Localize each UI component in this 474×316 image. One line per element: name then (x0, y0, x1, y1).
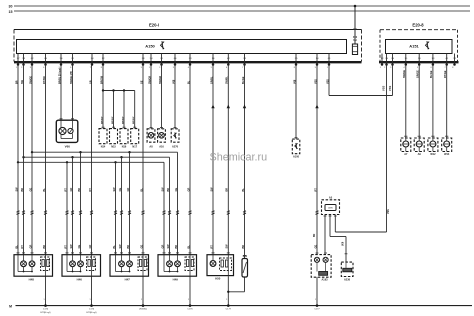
svg-text:GE: GE (119, 188, 122, 192)
svg-text:E20-8: E20-8 (412, 23, 424, 28)
svg-text:V08: V08 (172, 79, 175, 84)
svg-text:BR: BR (78, 188, 81, 192)
svg-text:SW: SW (210, 187, 213, 192)
svg-text:BR: BR (226, 188, 229, 192)
svg-text:SW: SW (119, 244, 122, 249)
svg-text:C170: C170 (43, 309, 49, 311)
svg-text:RT: RT (314, 188, 317, 192)
svg-text:VSS: VSS (381, 86, 385, 91)
svg-text:2: 2 (159, 67, 160, 69)
svg-text:3: 3 (390, 67, 391, 69)
svg-text:9: 9 (315, 67, 316, 69)
svg-text:Shemicar.ru: Shemicar.ru (210, 152, 268, 164)
svg-text:GE: GE (140, 80, 143, 84)
svg-text:2: 2 (21, 67, 22, 69)
svg-text:8: 8 (452, 67, 453, 69)
svg-text:RT: RT (21, 245, 24, 249)
svg-text:BR: BR (21, 188, 24, 192)
svg-text:3: 3 (173, 67, 174, 69)
svg-text:6: 6 (70, 67, 71, 69)
svg-text:BL: BL (43, 188, 46, 192)
svg-text:GR: GR (29, 245, 32, 249)
svg-text:BR/SW: BR/SW (101, 116, 103, 124)
svg-text:BR: BR (175, 245, 178, 249)
svg-text:2: 2 (384, 67, 385, 69)
svg-text:1: 1 (89, 299, 90, 301)
svg-text:V60: V60 (65, 145, 71, 149)
svg-text:GR/GE: GR/GE (417, 70, 420, 78)
svg-text:1: 1 (226, 299, 227, 301)
svg-text:30A: 30A (353, 39, 358, 42)
svg-text:E79(4-cyl): E79(4-cyl) (41, 312, 51, 314)
svg-text:BR: BR (314, 233, 316, 237)
svg-text:RT/GE: RT/GE (444, 70, 447, 78)
svg-text:H46: H46 (77, 277, 83, 281)
svg-text:BR/SW: BR/SW (112, 116, 114, 124)
svg-text:BL/GE: BL/GE (430, 70, 433, 78)
svg-text:RT: RT (89, 188, 92, 192)
svg-text:6: 6 (431, 67, 432, 69)
svg-text:VSS: VSS (388, 86, 392, 91)
svg-text:GR: GR (70, 188, 73, 192)
svg-text:GE: GE (175, 188, 178, 192)
svg-text:RT: RT (64, 188, 67, 192)
svg-text:GR/BL: GR/BL (210, 76, 213, 84)
svg-text:A276: A276 (172, 145, 179, 148)
svg-text:RT/SW: RT/SW (43, 76, 46, 84)
svg-text:V08: V08 (293, 79, 296, 84)
svg-text:SW: SW (226, 244, 229, 249)
svg-text:5: 5 (417, 67, 418, 69)
svg-text:9: 9 (141, 67, 142, 69)
svg-text:H50: H50 (215, 277, 221, 281)
svg-text:1: 1 (327, 67, 328, 69)
svg-text:C177: C177 (226, 309, 232, 311)
svg-text:BL: BL (187, 80, 190, 84)
svg-text:BR: BR (127, 245, 130, 249)
svg-text:W14: W14 (444, 153, 450, 156)
svg-text:A151: A151 (409, 44, 419, 49)
svg-text:VSS: VSS (387, 209, 390, 214)
svg-text:BL: BL (15, 245, 18, 249)
svg-text:3: 3 (30, 67, 31, 69)
svg-text:SW/GR: SW/GR (159, 76, 162, 84)
svg-text:H47: H47 (125, 277, 131, 281)
svg-text:SW: SW (15, 187, 18, 192)
svg-text:GR: GR (89, 245, 92, 249)
svg-text:7: 7 (444, 67, 445, 69)
svg-text:BL: BL (242, 188, 245, 192)
svg-text:N16: N16 (122, 145, 127, 148)
svg-text:BL/GE: BL/GE (242, 76, 245, 84)
svg-text:VSS: VSS (314, 79, 317, 84)
svg-text:E79(6-cyl): E79(6-cyl) (87, 312, 97, 314)
svg-text:SW: SW (70, 244, 73, 249)
svg-text:8: 8 (294, 67, 295, 69)
svg-text:1: 1 (149, 67, 150, 69)
svg-text:SW/GE (25): SW/GE (25) (70, 71, 73, 84)
svg-text:C176: C176 (187, 309, 193, 311)
svg-text:C177: C177 (314, 309, 320, 311)
svg-text:BR: BR (242, 245, 245, 249)
svg-text:RT: RT (210, 245, 213, 249)
svg-text:GR: GR (127, 188, 130, 192)
svg-text:ASW: ASW (328, 207, 333, 210)
svg-text:A193: A193 (322, 279, 329, 282)
svg-text:1: 1 (16, 67, 17, 69)
svg-text:GE: GE (140, 245, 143, 249)
svg-text:N15: N15 (111, 145, 116, 148)
svg-text:BL: BL (113, 245, 116, 249)
svg-text:GR: GR (161, 245, 164, 249)
svg-text:1: 1 (380, 67, 381, 69)
svg-text:A16: A16 (159, 145, 164, 148)
svg-text:SW/GE: SW/GE (403, 70, 406, 78)
svg-text:BR: BR (43, 245, 46, 249)
svg-text:A100: A100 (293, 156, 300, 159)
svg-text:GR: GR (89, 80, 92, 84)
svg-text:H48: H48 (29, 277, 35, 281)
svg-text:GE: GE (78, 245, 81, 249)
svg-text:30: 30 (9, 5, 13, 9)
svg-text:N14: N14 (101, 145, 106, 148)
svg-text:GE: GE (29, 188, 32, 192)
svg-text:4: 4 (43, 67, 44, 69)
svg-text:4: 4 (188, 67, 189, 69)
svg-text:SW/GE: SW/GE (29, 76, 32, 84)
svg-text:F30: F30 (353, 36, 358, 39)
svg-text:1: 1 (141, 299, 142, 301)
svg-text:1: 1 (188, 299, 189, 301)
svg-text:GE: GE (314, 245, 317, 249)
svg-text:7: 7 (90, 67, 91, 69)
svg-text:BR/SW: BR/SW (122, 116, 124, 124)
svg-text:SW/GR: SW/GR (148, 76, 151, 84)
svg-text:W12: W12 (430, 153, 436, 156)
svg-text:M: M (9, 304, 12, 308)
svg-text:8: 8 (101, 67, 102, 69)
svg-text:7: 7 (242, 67, 243, 69)
svg-text:BR/BL 25 (sw): BR/BL 25 (sw) (58, 68, 61, 84)
svg-text:E20-I: E20-I (149, 23, 159, 28)
svg-text:BR/SW: BR/SW (133, 116, 135, 124)
svg-text:SW: SW (161, 187, 164, 192)
svg-text:15: 15 (9, 10, 13, 14)
svg-text:VSS: VSS (326, 79, 329, 84)
svg-text:4: 4 (404, 67, 405, 69)
svg-text:N17: N17 (132, 145, 137, 148)
svg-text:BL: BL (187, 245, 190, 249)
svg-text:BL: BL (140, 188, 143, 192)
svg-text:6: 6 (226, 67, 227, 69)
svg-text:U08: U08 (343, 241, 345, 246)
svg-text:SW/BL: SW/BL (226, 76, 229, 84)
svg-text:A236: A236 (344, 279, 351, 282)
svg-text:1: 1 (43, 299, 44, 301)
svg-text:A150: A150 (145, 44, 155, 49)
svg-text:C170: C170 (89, 309, 95, 311)
svg-text:SW: SW (113, 187, 116, 192)
svg-text:5: 5 (211, 67, 212, 69)
svg-text:1: 1 (315, 299, 316, 301)
svg-text:SW: SW (167, 244, 170, 249)
svg-text:BR: BR (15, 80, 18, 84)
svg-text:GR: GR (187, 188, 190, 192)
svg-text:(KW30): (KW30) (139, 309, 147, 311)
svg-text:BR: BR (167, 188, 170, 192)
svg-text:BR/SW: BR/SW (100, 75, 103, 84)
svg-text:RT: RT (64, 245, 67, 249)
svg-text:H49: H49 (173, 277, 179, 281)
